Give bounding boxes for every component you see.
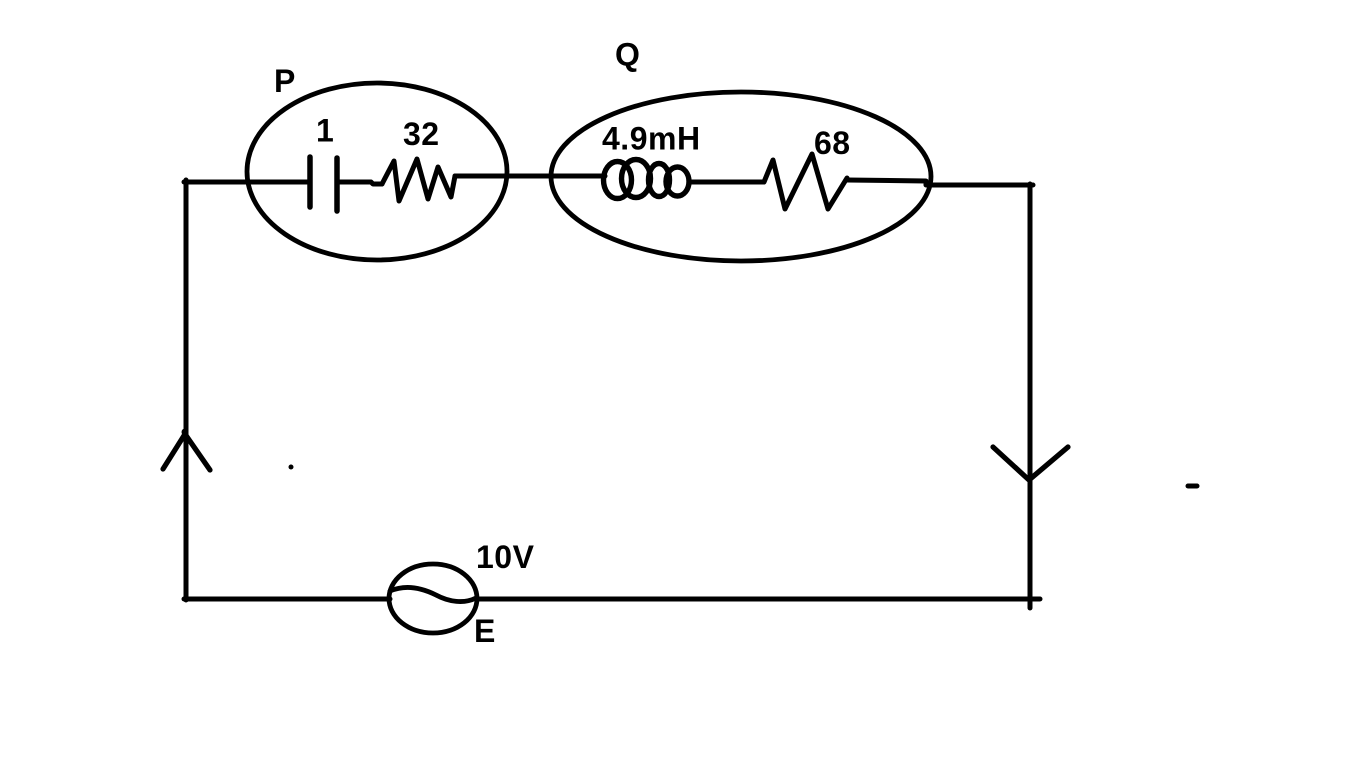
svg-text:P: P [274,63,296,99]
stray dot mark [289,465,294,470]
svg-text:32: 32 [403,116,440,152]
resistor R=32 zigzag [382,159,455,201]
wire: between P and Q (resistor 32 to inductor) [455,174,605,179]
AC source sine wave [390,588,476,602]
wire: resistor 68 to top-right corner [847,180,1033,185]
wire: inductor to resistor 68 [689,180,757,185]
ellipse Q (box around inductor and resistor 68) [551,92,931,261]
wire: right vertical [1028,184,1033,608]
inductor L=4.9mH loop 1 [604,162,632,199]
wire: top-left horizontal from left corner to capacitor [184,180,308,185]
resistor R=68 zigzag [757,154,847,209]
stray dash mark [1188,484,1197,489]
arrow knob on left arrow apex [182,429,189,436]
arrow: current direction on left wire (pointing up) [163,434,210,470]
wire: bottom horizontal left of source [184,597,390,602]
arrow: current direction on right wire (pointing down) [993,447,1068,480]
capacitor (value 1) left plate [307,157,313,207]
svg-text:68: 68 [814,125,851,161]
wire: bottom horizontal right of source [477,597,1040,602]
svg-text:4.9mH: 4.9mH [602,121,701,157]
svg-text:Q: Q [615,37,640,73]
wire: stub between capacitor and resistor 32 [337,182,382,184]
inductor L=4.9mH loop 3 [649,164,670,197]
svg-text:1: 1 [316,113,334,149]
capacitor (value 1) right plate [334,158,340,211]
ellipse P (box around battery and resistor 32) [247,83,507,260]
AC source E circle [389,564,477,633]
svg-text:10V: 10V [476,539,535,575]
inductor L=4.9mH loop 4 [666,167,689,196]
inductor L=4.9mH loop 2 [622,160,651,198]
wire: left vertical [184,180,189,600]
svg-text:E: E [474,613,496,649]
